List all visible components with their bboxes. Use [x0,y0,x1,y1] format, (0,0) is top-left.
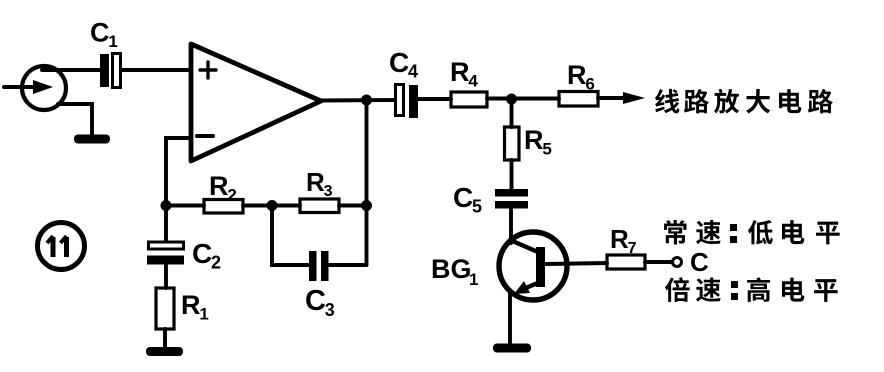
svg-text:1: 1 [469,270,478,289]
svg-text:C: C [453,182,473,213]
svg-text:C: C [389,47,409,78]
svg-text:4: 4 [468,71,478,90]
svg-text:C: C [90,18,110,48]
svg-text:R: R [181,290,201,320]
svg-text:C: C [192,238,212,269]
svg-text:5: 5 [542,139,551,158]
svg-text:3: 3 [324,183,333,200]
svg-text:R: R [610,224,629,254]
svg-text:4: 4 [408,62,418,82]
svg-text:2: 2 [211,253,221,273]
svg-text:7: 7 [628,240,637,257]
svg-text:6: 6 [585,74,594,93]
svg-text:3: 3 [325,300,335,320]
svg-text:C: C [690,247,709,277]
svg-text:C: C [305,285,326,317]
svg-text:5: 5 [472,197,482,217]
svg-text:BG: BG [431,254,472,284]
svg-text:R: R [209,171,229,201]
svg-text:2: 2 [227,185,236,204]
svg-text:R: R [450,57,470,87]
svg-text:1: 1 [199,304,208,323]
svg-text:1: 1 [108,32,117,51]
svg-text:R: R [524,125,544,155]
svg-text:R: R [567,60,587,90]
svg-text:R: R [306,167,325,197]
